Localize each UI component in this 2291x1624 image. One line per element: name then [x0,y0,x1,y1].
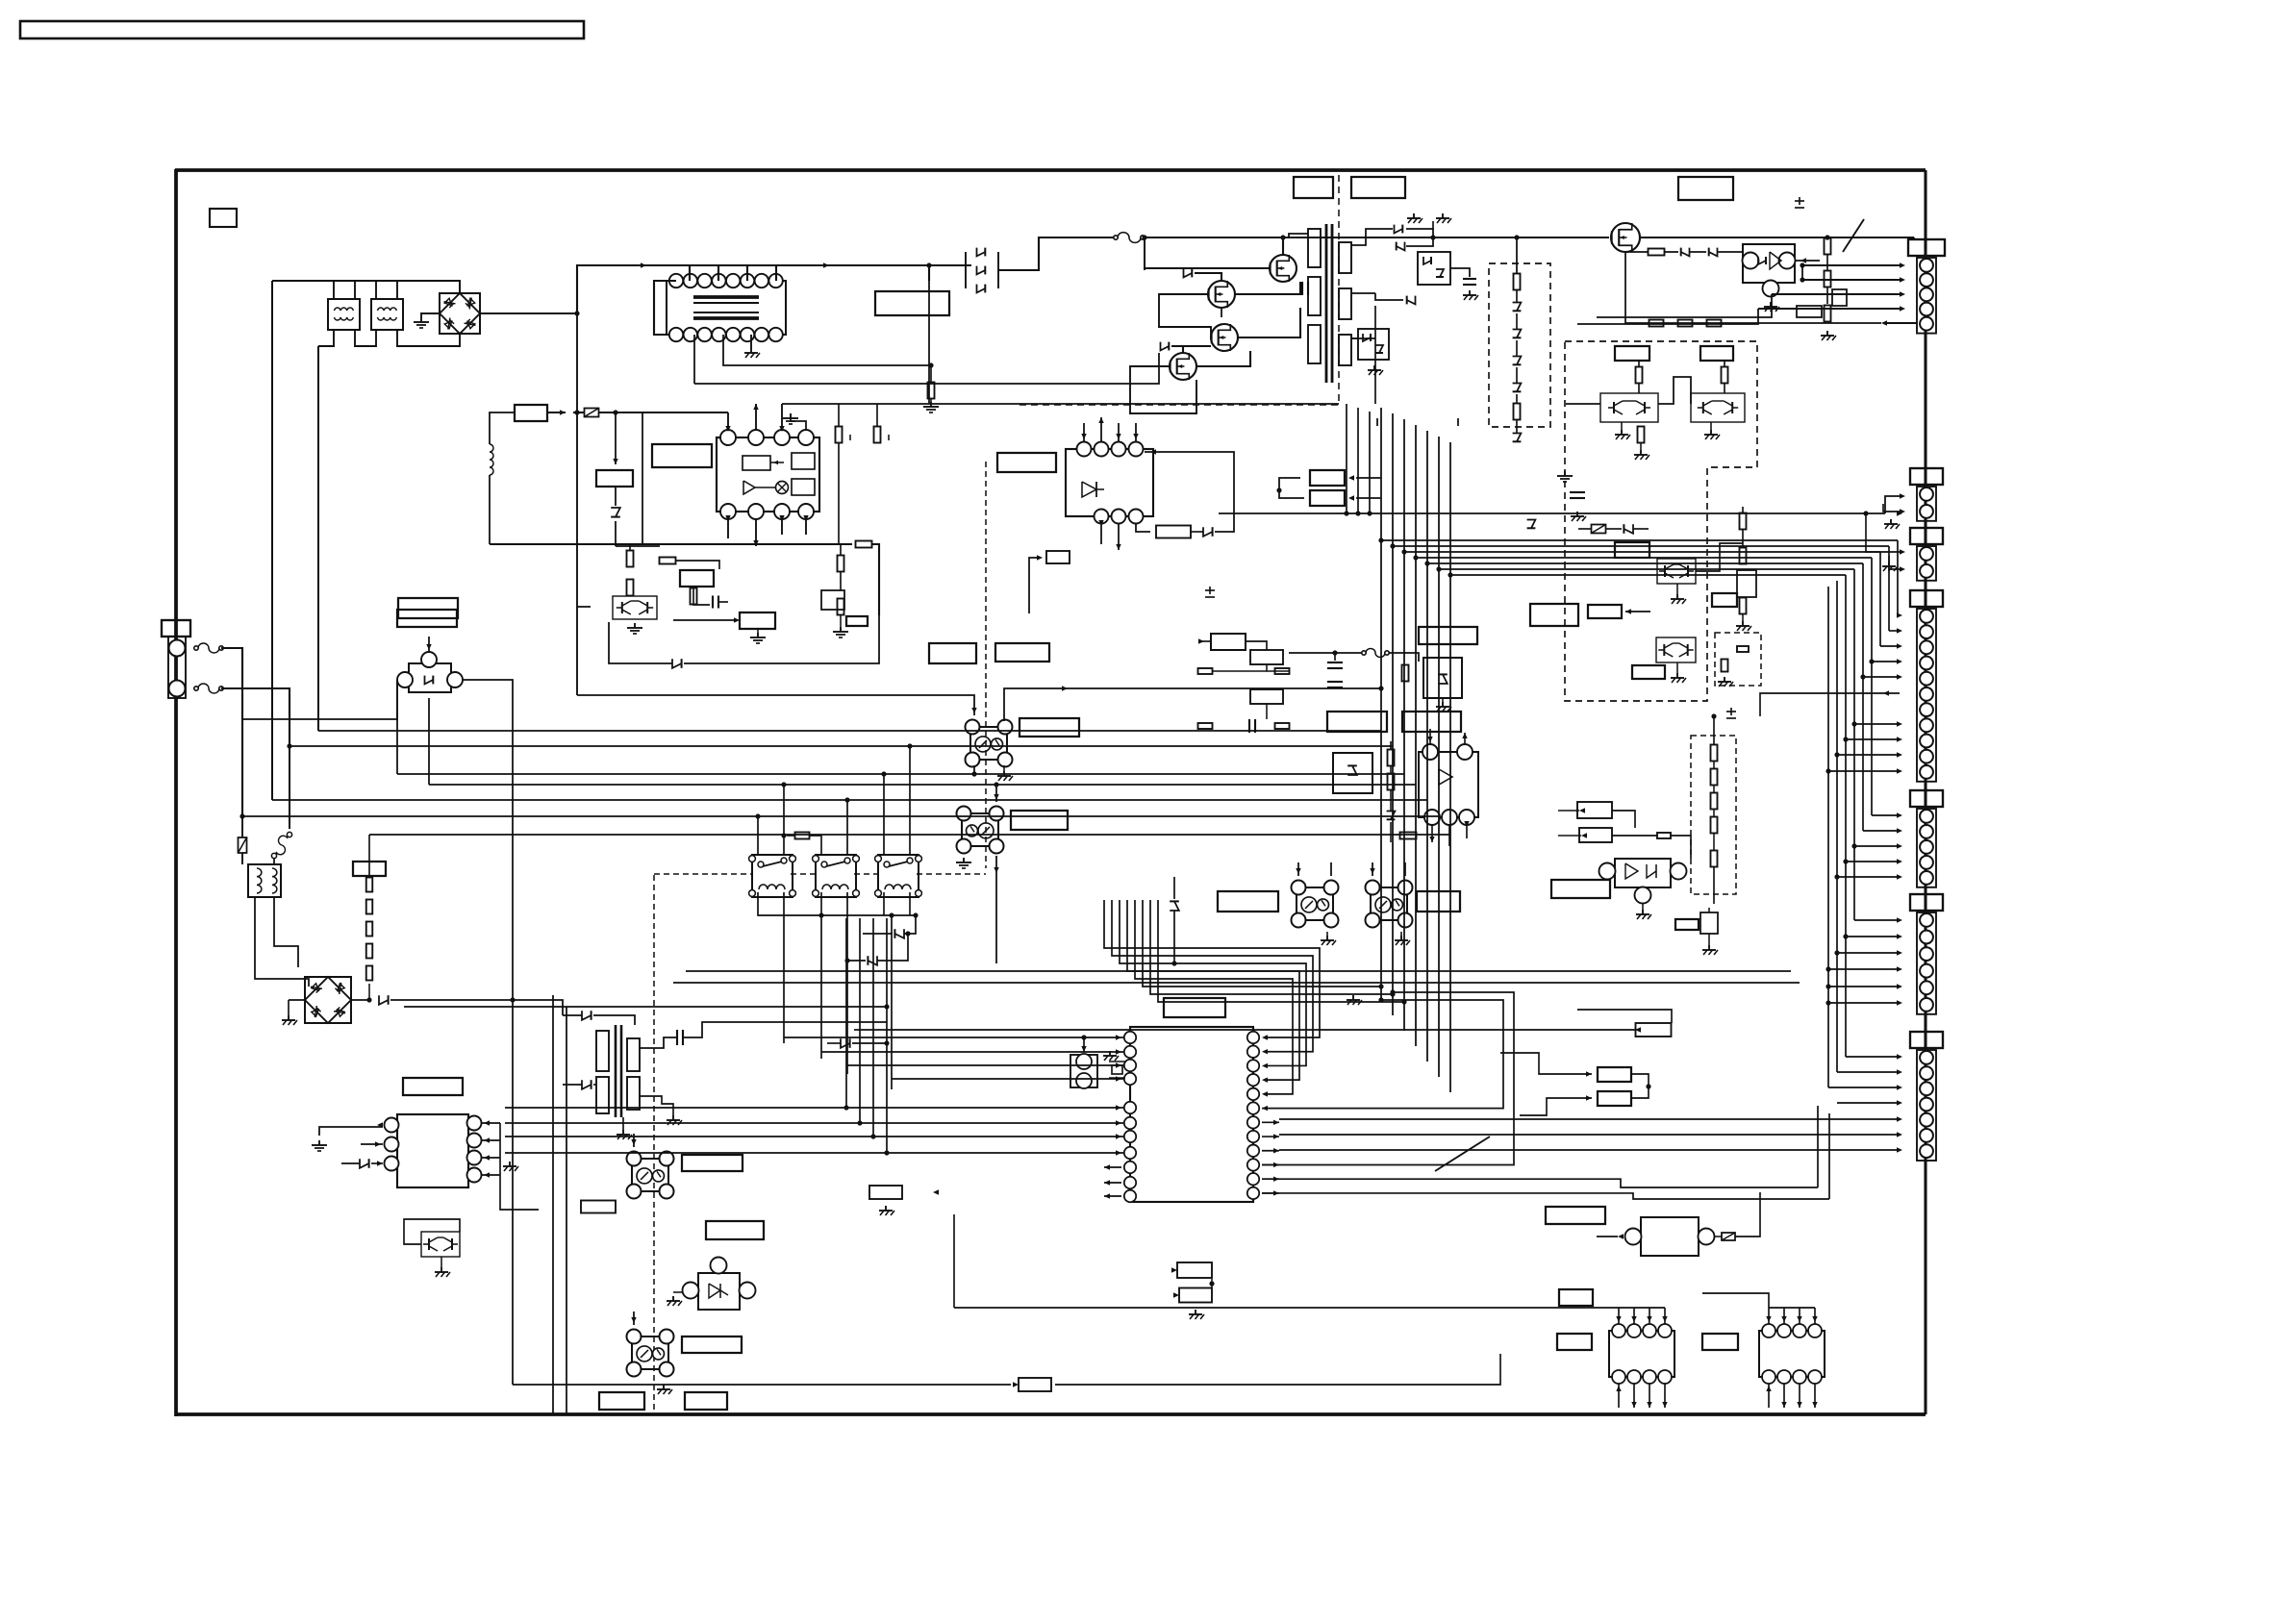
junction [1800,277,1804,282]
part label [1402,712,1461,732]
wire CN2 p2 [1883,504,1902,512]
junction [1378,537,1383,542]
wire [1083,423,1085,441]
wire [1221,308,1222,317]
zener ZD5 [1513,357,1522,365]
bus [872,918,874,1137]
wire [421,313,440,317]
wire [846,800,848,855]
diode block D10 [1358,329,1389,360]
part label small [1675,919,1699,930]
arrow [1812,1402,1817,1408]
diode D4 [1184,269,1193,278]
bus wire [505,1136,1123,1137]
wire T1 top taps [689,265,691,281]
wire [1846,861,1900,862]
arrow [1897,752,1902,757]
zener ZD2 [1375,345,1383,353]
diode D10a [1363,334,1371,341]
arrow [1897,859,1902,863]
junction [1869,659,1874,663]
trimmer VR2 [1740,598,1747,614]
wire [1612,811,1635,828]
diode D18 [868,956,877,965]
wire [1100,524,1102,544]
wire [1826,287,1828,304]
IC U9 pin left [1124,1102,1136,1113]
bus wire [1836,581,1838,1072]
wire [1828,770,1900,772]
wire [1606,528,1622,530]
arrow [1797,1316,1801,1322]
resistor R52 [1657,833,1671,838]
regulator block U4 [1423,658,1462,698]
wire [1742,614,1744,621]
wire diac bot drop [428,698,430,785]
bus drop [1438,437,1440,1077]
junction [1378,997,1383,1002]
junction [1424,561,1429,565]
part label [1598,1067,1631,1082]
arrow [1104,1193,1110,1198]
crystal X1 [1070,1055,1097,1087]
wire [746,265,748,281]
wire [368,835,370,876]
wire [1664,1308,1666,1324]
wire Q3 gate [1171,345,1211,347]
capacitor C6 [712,596,714,609]
part label [398,598,458,618]
wire [441,1257,442,1267]
IC U9 pin right [1247,1187,1259,1199]
bus wire [1374,306,1376,404]
connector CN1 [1908,239,1945,256]
arrow [1897,1054,1902,1059]
arrow [1579,808,1585,812]
arrow [753,540,758,546]
inductor L3 [490,444,493,475]
junction [1390,543,1395,548]
part label [515,405,547,421]
IC U8 pin right [467,1168,482,1183]
part label [1588,605,1622,618]
IC U9 pin left [1124,1060,1136,1071]
wire [838,443,840,544]
bus wire [784,1037,1123,1038]
wire [489,475,491,544]
arrow [1116,1150,1121,1155]
wire [390,1000,563,1015]
wire [1664,1384,1666,1408]
diode D11 [1681,248,1690,257]
bus wire [756,403,782,405]
IC U3 pin bottom [1129,510,1144,524]
arrow [1897,1085,1902,1089]
wire [871,544,879,615]
ground [1621,430,1623,435]
resistor R20 [627,551,634,567]
wire [333,281,335,299]
wire [1618,1384,1620,1408]
IC U3 pin top [1095,442,1109,457]
ground [1724,677,1725,682]
bus wire [1845,575,1847,1057]
wire [1890,512,1892,514]
bus wire [1853,569,1855,920]
wire [719,601,728,603]
comparator glyphs [1625,863,1638,879]
wire [351,999,369,1001]
shunt regulator U2 [1743,244,1795,283]
bus drop [1449,442,1451,1092]
arrow [1116,1105,1121,1110]
wire [1854,919,1900,921]
wire [840,615,842,627]
wire diac left drop [396,682,398,774]
part label [1546,1207,1605,1224]
wire [1612,835,1657,837]
wire [490,412,515,444]
junction [510,997,515,1002]
bus [1817,1106,1819,1187]
junction [884,1040,889,1045]
part label [1702,1334,1738,1350]
bus [838,403,840,405]
ground [622,1130,624,1135]
wire [1266,704,1268,719]
arrow [1104,1164,1110,1169]
resistor R25 [836,427,843,443]
wire [1466,825,1468,838]
arrow [1797,1402,1801,1408]
wire [1891,508,1902,513]
wire [1826,254,1828,271]
connector CN7 [1910,1032,1943,1048]
wire [255,897,309,987]
connector CN8 (AC inlet) [162,620,190,637]
connector CN4 [1910,590,1943,607]
resistor R28 [928,383,935,399]
wire [482,1122,500,1124]
wire [1262,1150,1279,1152]
part label [1530,604,1578,626]
pot box [821,590,844,610]
wire [1356,477,1381,479]
wire [1262,1136,1279,1137]
wire [1795,260,1820,262]
arrow [1116,1049,1121,1054]
diode block D8 [1418,252,1450,285]
wire [1004,688,1381,721]
ground [750,348,752,353]
zener ZD8 [1758,257,1766,264]
bus wire [1427,562,1863,564]
bus wire [1279,1134,1900,1136]
bus wire [821,1051,1123,1053]
wire [1735,1192,1760,1237]
wire [718,265,719,281]
ground [672,1115,674,1120]
wire [1642,904,1644,910]
diode pack D1-D3 [966,240,998,294]
resistor R47 [1275,668,1290,674]
IC U1 pin top 3 [774,430,790,445]
wire [840,544,842,556]
arrow [1631,1316,1636,1322]
bus wire [290,745,1393,747]
wire [1618,1308,1620,1324]
diode D21 [841,1038,850,1048]
IC U8 [397,1114,468,1187]
part label [929,643,976,663]
tick marks [1376,418,1378,426]
IC U1 internals [743,456,770,470]
IC U9 pin right [1247,1088,1259,1100]
diode D8a [1423,257,1431,264]
ground [509,1162,511,1166]
wire [1872,661,1900,662]
resistor R50 [1388,750,1395,766]
ground [790,413,792,418]
arrow [1897,737,1902,741]
dashed box drive [1565,341,1757,701]
optocoupler PC6 [632,1337,668,1369]
IC U9 pin left [1124,1117,1136,1129]
wire to reg box [615,412,617,464]
bus wire [1279,1118,1900,1120]
junction [366,997,371,1002]
arrow [484,1120,490,1125]
zener ZD4 [1513,330,1522,338]
wire chain [1713,716,1715,745]
connector CN2 [1910,468,1943,485]
junction [1843,934,1848,938]
bus wire [1127,900,1299,1080]
bus wire [1357,408,1359,513]
wire [1136,524,1150,532]
diode D20 [582,1011,592,1020]
bridge rectifier DB1 [440,293,480,334]
ground [1640,450,1642,455]
wire [1442,698,1444,702]
wire [1213,670,1267,672]
arrow [1897,1069,1902,1074]
fuse F4 [1366,649,1385,658]
part label [353,862,386,876]
bus wire [505,1122,1123,1124]
arrow [1897,966,1902,971]
wire [1432,221,1434,229]
wire [1326,932,1328,936]
wire [1713,833,1715,851]
arrow [1900,493,1905,498]
IC U6 pin [1422,744,1438,760]
wire [757,629,759,633]
ground [1413,213,1415,218]
wire CN1 p2 [1802,279,1902,281]
IC U11 [1759,1331,1825,1377]
bus wire [318,730,1381,732]
arrow [1586,1095,1592,1100]
bus [846,892,848,1074]
wire [1768,1384,1770,1408]
resistor chain R [366,900,373,914]
arrow [1098,520,1103,526]
arrow [1262,1049,1268,1054]
fuse F2 [198,684,219,693]
wire CN1 p3 [1772,293,1902,295]
part label [682,1337,742,1353]
arrow [1897,984,1902,988]
arrow [1062,686,1068,690]
resistor R26 [874,427,881,443]
wire [930,398,932,402]
arrow [631,1317,636,1323]
bus [783,892,785,1043]
junction [574,410,579,414]
arrow [1262,1106,1268,1111]
diode D2 [977,266,986,275]
junction [574,311,579,315]
arrow [1635,1027,1641,1032]
part label [1615,542,1649,558]
IC U3 pin top [1129,442,1144,457]
wire [1100,417,1102,441]
arrow [1883,690,1889,695]
arrow [1081,1046,1086,1052]
wire hook [1029,558,1039,613]
wire [1631,1074,1649,1098]
arrow [1631,1402,1636,1408]
bus wire [686,970,1791,972]
wire [482,1174,500,1176]
arrow [1897,1132,1902,1137]
bus wire [1871,558,1873,815]
IC U9 pin right [1247,1102,1259,1113]
title block [20,21,584,38]
wire CN1 p1 [1802,264,1902,266]
diac block [409,663,451,692]
wire [995,856,997,873]
arrow [484,1155,490,1160]
triac glyph [1082,482,1096,497]
wire [1390,822,1392,842]
IC U9 pin right [1247,1046,1259,1058]
MOSFET Q5 [1611,223,1640,252]
wire [1828,968,1900,970]
line filter L2 [371,299,403,330]
wire [1118,524,1120,550]
bus wire [1262,1179,1818,1187]
part label [1700,346,1733,361]
IC U9 pin right [1247,1060,1259,1071]
wire [876,404,878,426]
wire cap to core [1307,287,1309,289]
wire [781,404,783,430]
wire [805,519,807,535]
bus [1865,513,1867,534]
wire [1640,237,1914,238]
arrow [1766,1386,1771,1391]
resistor R12 [1649,249,1665,256]
junction [870,1134,875,1138]
wire [1880,645,1900,647]
diode D13 [672,659,682,668]
wire [995,785,997,802]
IC U1 pin top 2 [748,430,764,445]
IC U1 pin bottom 2 [748,504,764,519]
wire filter drop B [317,346,319,731]
junction [1378,984,1383,988]
junction [781,833,786,837]
wire T2 sec3 [1351,337,1375,339]
wire [615,1200,617,1207]
bus wire [1897,540,1899,615]
wire [1267,664,1290,671]
plus-minus mark [1795,200,1804,202]
wire [615,487,617,506]
resistor R54 [1400,833,1417,839]
arrow [1150,449,1156,454]
arrow [1273,1190,1279,1195]
IC U3 pin bottom [1095,510,1109,524]
diode D3 [977,285,986,293]
arrow [1262,1035,1268,1039]
arrow [1781,1316,1786,1322]
resistor R11 [1514,404,1521,420]
IC U9 pin left [1124,1073,1136,1085]
junction [1825,984,1830,988]
wire [1713,809,1715,817]
wire [1500,1053,1592,1074]
wire [1516,289,1518,302]
wire [693,587,710,605]
part label [1559,1289,1593,1306]
wire [1400,932,1402,936]
junction [889,912,894,917]
wire [1448,825,1450,846]
arrow [725,426,730,432]
dashed link [791,873,816,875]
resistor R46 [1198,668,1213,674]
wire [1828,1002,1900,1004]
ground [420,317,422,322]
wire [1516,419,1518,433]
zener ZD3 [1513,303,1522,312]
junction [1825,235,1829,239]
bus wire [1879,552,1881,646]
wire [854,1029,1635,1031]
bus wire [673,982,1800,984]
junction [1413,555,1418,560]
wire [1742,529,1744,548]
ground [1742,621,1744,626]
wire [1372,862,1373,876]
IC U9 pin left [1124,1131,1136,1142]
resistor R18 [1707,320,1722,327]
wire [883,892,885,915]
wire [616,545,660,547]
fuse F1 [198,643,219,653]
arrow [1881,320,1887,325]
resistor R45 [1402,665,1409,682]
junction [755,813,760,818]
arrow [1370,868,1374,874]
bus drop [1392,413,1394,1015]
wire [673,619,737,621]
ground [1888,562,1890,566]
slash mark [1843,219,1864,252]
